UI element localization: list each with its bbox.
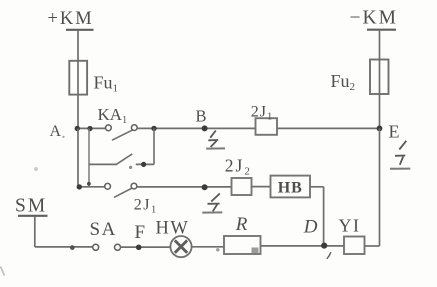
svg-text:YI: YI bbox=[339, 215, 361, 235]
fuse Fu2 bbox=[370, 60, 389, 95]
wire R to node D to YI bbox=[261, 245, 345, 247]
linked contact left riser wire bbox=[88, 128, 90, 186]
wire 2J2 to HB bbox=[252, 186, 271, 188]
contact 2J1 blade bbox=[114, 188, 132, 198]
edge artifact bottom left bbox=[1, 267, 5, 276]
svg-text:SA: SA bbox=[90, 219, 117, 240]
relay coil 2J1 box bbox=[256, 118, 278, 135]
wire YI to right bus bbox=[365, 245, 380, 247]
wire HB right bbox=[310, 186, 324, 188]
wire bottom row SM to SA bbox=[35, 246, 93, 248]
speck near label A bbox=[62, 136, 64, 138]
wire SA to lamp HW bbox=[121, 246, 171, 248]
svg-text:+KM: +KM bbox=[48, 9, 94, 29]
switch SA left terminal bbox=[93, 244, 99, 250]
speck artifact bbox=[216, 248, 219, 251]
svg-text:D: D bbox=[303, 217, 318, 238]
solenoid YI box bbox=[344, 237, 365, 255]
wire SM down bbox=[34, 217, 36, 247]
node A junction dot bbox=[75, 126, 80, 131]
annotation mark under node B bbox=[206, 131, 225, 149]
artifact blob in R box bbox=[252, 248, 259, 254]
svg-text:B: B bbox=[196, 106, 207, 125]
svg-text:−KM: −KM bbox=[350, 7, 398, 28]
contact 2J1 right terminal bbox=[131, 183, 137, 189]
wire row1 A to contact KA1 bbox=[77, 127, 106, 129]
buzzer HB box bbox=[271, 176, 311, 198]
annotation mark under node E bbox=[390, 141, 410, 169]
faint speck left bbox=[34, 167, 38, 171]
lamp HW circle bbox=[170, 236, 191, 257]
right bus wire E down to YI bbox=[379, 128, 381, 246]
left bus wire A down to row3 bbox=[77, 128, 79, 186]
junction dot row3 under B bbox=[202, 184, 208, 190]
junction dot at linked-contact left riser bbox=[87, 126, 92, 131]
wire lamp to resistor R bbox=[192, 246, 224, 248]
wire row2 right bbox=[136, 163, 154, 165]
riser junction blob row3 bbox=[87, 182, 91, 186]
wire -KM down through Fu2 to node E bbox=[379, 31, 381, 129]
contact KA1 second blade bbox=[116, 154, 133, 165]
annotation j under node D bbox=[327, 252, 331, 259]
wire row3 contact to coil 2J2 bbox=[137, 186, 232, 188]
switch SA right terminal bbox=[115, 244, 121, 250]
wire row1 2J1 to node E bbox=[277, 127, 380, 129]
SM terminal bar bbox=[18, 215, 48, 217]
node D junction dot bbox=[321, 243, 327, 249]
junction dot row2 bbox=[141, 162, 146, 167]
svg-text:R: R bbox=[235, 214, 248, 235]
annotation mark under row3 junction bbox=[202, 194, 222, 213]
contact second terminal speck bbox=[129, 166, 132, 169]
lamp HW cross spoke 2 bbox=[175, 240, 187, 252]
wire HB down to node D bbox=[323, 187, 325, 246]
node B junction dot bbox=[202, 125, 208, 131]
contact KA1 right terminal bbox=[131, 125, 137, 131]
wire +KM down through Fu1 to node A bbox=[77, 31, 79, 129]
contact 2J1 left terminal bbox=[105, 183, 111, 189]
svg-text:SM: SM bbox=[15, 196, 47, 217]
wire row1 KA1 to node B to coil 2J1 bbox=[137, 127, 256, 129]
corner junction dot row3 bbox=[77, 184, 82, 189]
tick mark on wire bbox=[70, 245, 75, 250]
svg-text:A: A bbox=[50, 123, 62, 140]
linked contact right riser wire bbox=[153, 128, 155, 164]
fuse Fu1 bbox=[69, 61, 87, 95]
svg-text:HB: HB bbox=[278, 179, 303, 196]
node E junction dot bbox=[377, 125, 383, 131]
svg-text:HW: HW bbox=[156, 219, 190, 239]
svg-text:F: F bbox=[135, 222, 146, 243]
contact KA1 blade bbox=[112, 130, 133, 141]
relay coil 2J2 box bbox=[232, 178, 252, 195]
lamp HW cross spoke 1 bbox=[175, 240, 187, 252]
-KM terminal bar bbox=[367, 29, 396, 31]
junction dot right riser top bbox=[151, 126, 156, 131]
wire row3 left bbox=[78, 186, 105, 188]
resistor R box bbox=[224, 236, 261, 254]
contact KA1 left terminal bbox=[106, 125, 112, 131]
svg-text:E: E bbox=[389, 122, 400, 142]
wire row2 left bbox=[89, 163, 116, 165]
node F junction dot bbox=[136, 245, 142, 251]
+KM terminal bar bbox=[66, 29, 94, 31]
